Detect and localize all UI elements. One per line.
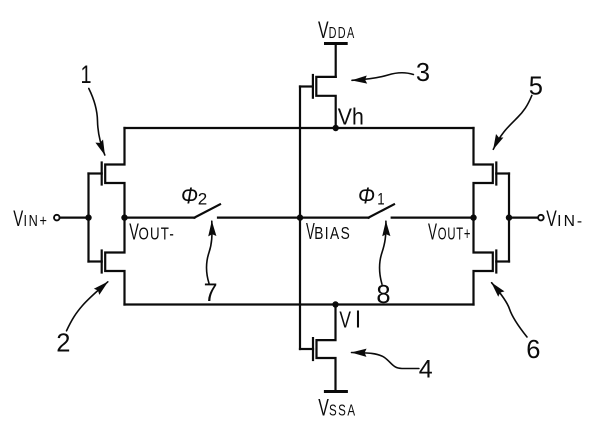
svg-text:V: V xyxy=(546,206,557,231)
wire VDDA to transistor 3 xyxy=(335,45,337,77)
svg-text:2: 2 xyxy=(56,330,70,358)
wire VIN+ to gates xyxy=(60,217,89,219)
svg-text:3: 3 xyxy=(416,59,430,87)
node VBIAS xyxy=(297,214,303,220)
leader arrow to transistor 6 xyxy=(492,283,527,337)
switch 8 blade xyxy=(369,204,395,217)
svg-text:BIAS: BIAS xyxy=(314,223,351,243)
wire switch 8 to VOUT+ xyxy=(392,217,474,219)
svg-text:OUT-: OUT- xyxy=(139,224,176,244)
wire left gate vertical xyxy=(87,174,89,262)
transistor 6 xyxy=(474,218,493,305)
svg-text:V: V xyxy=(428,219,437,245)
svg-text:V: V xyxy=(318,17,329,44)
node VIN- terminal xyxy=(538,215,544,221)
svg-text:5: 5 xyxy=(529,72,543,100)
svg-text:IN-: IN- xyxy=(557,213,584,230)
leader arrow to transistor 4 xyxy=(352,353,419,369)
node Vh xyxy=(333,125,339,131)
node gate junction right xyxy=(506,214,512,220)
svg-text:2: 2 xyxy=(198,189,207,208)
svg-text:SSA: SSA xyxy=(329,402,357,419)
wire bottom rail Vl xyxy=(125,303,474,305)
svg-text:Φ: Φ xyxy=(358,183,375,209)
wire gates to VIN- xyxy=(509,217,538,219)
leader arrow to transistor 2 xyxy=(67,282,108,331)
wire switch 7 to VBIAS xyxy=(218,217,300,219)
node gate junction left xyxy=(85,214,91,220)
svg-text:V: V xyxy=(318,394,329,421)
transistor 4 xyxy=(317,305,336,391)
svg-text:Φ: Φ xyxy=(181,183,198,209)
wire VOUT- to switch 7 xyxy=(125,217,195,219)
node VOUT- xyxy=(121,214,127,220)
node VOUT+ xyxy=(470,214,476,220)
transistor 1 xyxy=(105,128,124,218)
transistor 3 xyxy=(316,77,335,128)
leader arrow to switch 7 xyxy=(206,221,212,283)
node VDDA xyxy=(326,42,347,45)
svg-text:Vh: Vh xyxy=(338,104,364,130)
svg-text:DDA: DDA xyxy=(329,25,356,42)
svg-text:7: 7 xyxy=(204,279,218,307)
transistor 5 xyxy=(474,128,493,218)
leader arrow to switch 8 xyxy=(379,221,385,284)
wire VBIAS to switch 8 xyxy=(300,217,369,219)
svg-text:1: 1 xyxy=(81,61,92,89)
svg-text:1: 1 xyxy=(377,190,384,209)
wire VBIAS vertical (gates of 3 and 4) xyxy=(299,87,301,350)
transistor 2 xyxy=(105,218,124,305)
leader arrow to transistor 3 xyxy=(352,73,413,81)
svg-text:V: V xyxy=(13,206,23,231)
switch 7 blade xyxy=(194,204,220,217)
svg-text:l: l xyxy=(355,306,360,332)
node VIN+ terminal xyxy=(54,215,60,221)
node Vl xyxy=(332,301,338,307)
svg-text:4: 4 xyxy=(419,356,433,384)
node VSSA xyxy=(325,390,346,393)
leader arrow to transistor 5 xyxy=(493,96,532,150)
leader arrow to transistor 1 xyxy=(89,89,105,156)
svg-text:6: 6 xyxy=(526,336,540,364)
svg-text:8: 8 xyxy=(376,281,390,309)
svg-text:V: V xyxy=(339,307,351,333)
wire top rail Vh xyxy=(125,127,474,129)
svg-text:IN+: IN+ xyxy=(24,213,49,230)
wire right gate vertical xyxy=(508,174,510,262)
svg-text:OUT+: OUT+ xyxy=(438,224,472,244)
